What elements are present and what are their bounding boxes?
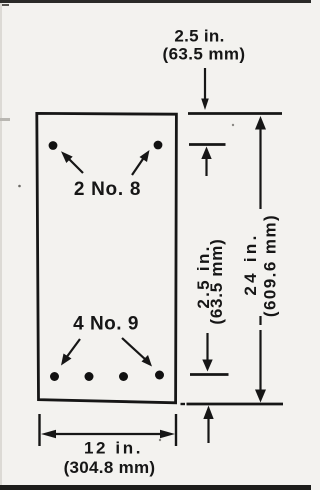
24 in. dimension line upper segment with up arrow: [255, 116, 266, 209]
scan speck left margin: [0, 118, 10, 121]
svg-text:24 in.: 24 in.: [241, 232, 260, 295]
svg-text:2.5 in.: 2.5 in.: [174, 27, 224, 46]
12 in. dimension line with arrows: [41, 430, 175, 439]
scan speck: [232, 124, 234, 126]
svg-text:2 No. 8: 2 No. 8: [74, 179, 141, 200]
svg-text:(609.6 mm): (609.6 mm): [261, 214, 280, 317]
bottom border bar: [0, 485, 311, 490]
extension line at beam top level: [188, 112, 282, 115]
extension line at top-bar level: [189, 143, 226, 146]
svg-text:4 No. 9: 4 No. 9: [73, 314, 139, 335]
leader arrow from top label down to beam-top extension line: [201, 68, 209, 110]
rebar dot bottom 2: [85, 372, 94, 381]
rebar dot bottom 4: [155, 371, 164, 380]
extension line at beam bottom level: [187, 403, 284, 406]
right extension tick below beam: [175, 414, 177, 446]
svg-text:(63.5 mm): (63.5 mm): [207, 238, 226, 324]
leader arrow to top-left bar: [61, 151, 83, 173]
scan speck: [18, 185, 21, 188]
rebar dot bottom 3: [119, 372, 128, 381]
beam outline rectangle: [37, 113, 177, 402]
leader arrow to bottom bar 1: [61, 339, 80, 366]
24 in. dimension line lower segment with down arrow: [255, 330, 266, 403]
svg-text:(304.8 mm): (304.8 mm): [64, 458, 156, 477]
scan speck top-left: [2, 4, 9, 6]
svg-text:12 in.: 12 in.: [84, 439, 143, 458]
rebar dot top-right: [154, 141, 163, 150]
top border bar: [0, 0, 311, 3]
extension line at bottom-bar level: [190, 373, 229, 376]
gap dash before bottom extension line: [181, 403, 186, 405]
up arrow below bottom extension line (inner dim lower arrow): [203, 406, 213, 444]
rebar dot bottom 1: [50, 372, 59, 381]
rebar dot top-left: [49, 141, 58, 150]
leader arrow to top-right bar: [132, 150, 150, 175]
leader arrow to bottom bar 4: [122, 338, 152, 367]
shared inner dimension line: up arrow to top-bar line: [201, 147, 211, 177]
24 in. dimension line small dash below text: [259, 316, 261, 325]
shared inner dimension line: down arrow to bottom-bar line: [202, 333, 212, 372]
scan speck: [159, 439, 161, 441]
svg-text:(63.5 mm): (63.5 mm): [163, 45, 246, 64]
left extension tick below beam: [38, 414, 40, 446]
